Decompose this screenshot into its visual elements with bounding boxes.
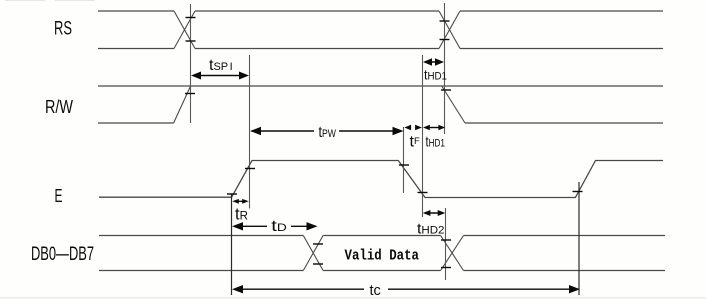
RS right crossover [439, 11, 460, 49]
tick RS right upper [440, 20, 450, 22]
R/W rails [98, 86, 663, 123]
svg-text:tHD1: tHD1 [426, 133, 446, 150]
dimension arrow tPW [250, 127, 404, 135]
tick E rise bottom [227, 193, 237, 195]
tick DB right lower [441, 267, 451, 269]
svg-text:tF: tF [410, 134, 420, 151]
RS bus rails [98, 11, 663, 49]
dimension arrow tF [404, 125, 422, 131]
dimension arrow tSP1 [191, 72, 249, 80]
marker line tC left x=231.5 [231, 194, 233, 295]
tick RS right lower [440, 39, 450, 41]
svg-text:E: E [55, 186, 63, 206]
dimension arrow tHD1 top [423, 58, 444, 66]
tick R/W rise [185, 93, 195, 95]
svg-text:tPW: tPW [319, 124, 337, 141]
svg-text:R/W: R/W [45, 97, 73, 117]
tick E fall top [399, 164, 409, 166]
R/W falling edge [442, 86, 465, 123]
svg-text:tHD2: tHD2 [417, 221, 445, 238]
svg-text:tD: tD [271, 218, 287, 235]
tick RS left upper [186, 17, 196, 19]
marker line tPW right x=403.5 [403, 127, 405, 193]
marker line tC right x=579 [578, 182, 580, 295]
DB0-DB7 bus rails [99, 236, 665, 271]
measurement ticks [185, 18, 583, 268]
tick R/W fall [441, 89, 451, 91]
tick RS left lower [186, 40, 196, 42]
marker line tHD2 right x=445.5 [445, 208, 447, 280]
svg-text:tSPI: tSPI [209, 57, 233, 74]
R/W rising edge [174, 86, 191, 123]
dimension arrow tD [232, 222, 318, 230]
marker line at RS/RW transition x=190.5 [190, 4, 192, 123]
dimension arrow tC [232, 285, 580, 293]
svg-text:DB0—DB7: DB0—DB7 [31, 244, 94, 265]
dimension arrow tHD2 [423, 210, 446, 216]
tick E rise top [245, 168, 255, 170]
marker line RS right transition x=444.5 [444, 3, 446, 134]
svg-text:tc: tc [370, 283, 381, 299]
DB bus left crossover [303, 236, 323, 271]
dimension arrow tR [232, 199, 248, 204]
marker line tF right x=422.5 [422, 55, 424, 217]
E waveform [99, 161, 663, 198]
svg-text:Valid Data: Valid Data [345, 248, 420, 265]
tick E right rise [573, 191, 583, 193]
tick DB left lower [313, 263, 323, 265]
tick E fall bottom [418, 192, 428, 194]
DB bus right crossover [441, 236, 464, 271]
svg-text:RS: RS [54, 19, 72, 40]
tick DB left upper [313, 243, 323, 245]
RS left crossover [174, 11, 195, 49]
dimension arrow tHD1 lower [423, 125, 445, 131]
tick DB right upper [441, 239, 451, 241]
svg-text:tHD1: tHD1 [424, 67, 447, 83]
top edge scan artifact [5, 0, 95, 1]
marker line tSP1 right x=249.5 [249, 55, 251, 209]
svg-text:tR: tR [235, 206, 248, 224]
bottom edge scan band [0, 297, 706, 299]
